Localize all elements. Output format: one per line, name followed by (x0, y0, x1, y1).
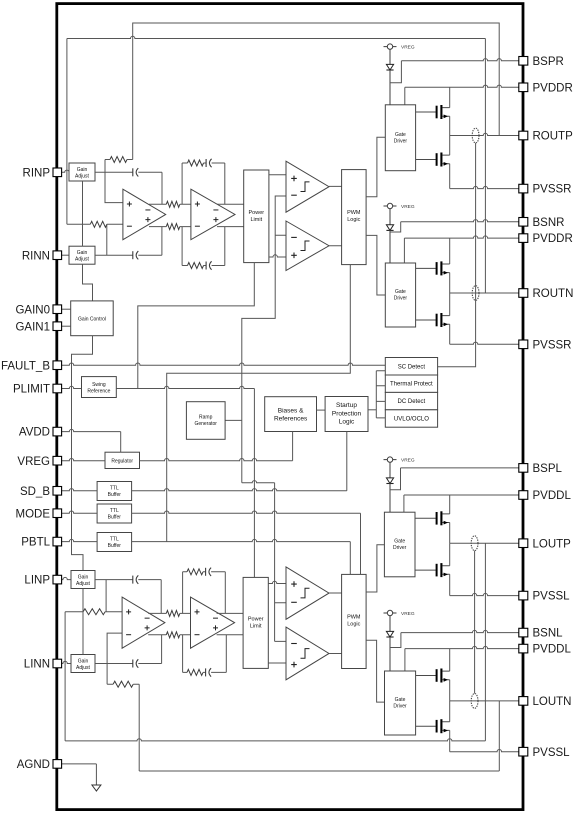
block Ramp Generator (186, 402, 225, 440)
block PWM Logic right channel (342, 170, 367, 265)
block Regulator (105, 452, 140, 468)
protection bus (376, 371, 385, 418)
wire PWM2 to gate driver 4 (366, 640, 384, 702)
op-amp U3 first stage left channel (122, 597, 165, 648)
wire PWM2 to gate driver 3 (366, 545, 384, 592)
pin PVDDR (519, 83, 528, 92)
svg-text:Buffer: Buffer (108, 515, 122, 521)
wire - input opamp3 (107, 633, 122, 663)
svg-text:LINN: LINN (24, 659, 50, 671)
wire PVDDL rail 1 (403, 495, 405, 512)
wire PL2 to comparator3 + input (268, 581, 286, 583)
pin PVSSL (519, 747, 528, 756)
svg-text:PVSSR: PVSSR (533, 184, 572, 196)
wire LINP pin (62, 577, 71, 579)
svg-text:LINP: LINP (24, 575, 50, 587)
svg-text:Driver: Driver (394, 139, 408, 145)
wire startup logic to protection bus (368, 409, 376, 411)
pin BSPL (519, 464, 528, 473)
svg-text:SD_B: SD_B (20, 486, 50, 498)
svg-text:PVSSR: PVSSR (533, 339, 572, 351)
svg-text:VREG: VREG (17, 456, 50, 468)
block Thermal Protect (385, 375, 437, 392)
svg-text:PVDDL: PVDDL (533, 490, 572, 502)
VREG terminal 1 (384, 46, 397, 48)
block Biases & References (265, 397, 317, 432)
svg-text:TTL: TTL (110, 537, 119, 543)
wire power limit to PLIMIT net (138, 263, 255, 389)
diode D3 (389, 462, 391, 478)
svg-text:Logic: Logic (347, 217, 360, 223)
svg-text:PVSSL: PVSSL (533, 591, 571, 603)
wire PVDDL rail 2 (404, 649, 406, 671)
wire LOUTN feedback run F2 (139, 770, 499, 772)
current sense ellipse 4 (471, 694, 478, 709)
svg-text:PBTL: PBTL (21, 537, 50, 549)
wire ROUTN node (450, 292, 519, 294)
op-amp U1 first stage right channel (123, 189, 166, 240)
wire AVDD (62, 429, 121, 431)
block UVLO/OCLO (385, 410, 437, 427)
svg-text:PVDDR: PVDDR (533, 82, 573, 94)
wire PVSSR 1 (450, 186, 519, 188)
wire op1 lower output + interstage resistor (149, 226, 191, 228)
pin PVDDR (519, 234, 528, 243)
wire PVSSL 2 (450, 750, 519, 752)
svg-text:VREG: VREG (401, 611, 415, 617)
wire op4 outputs to power limit 2 (217, 613, 244, 634)
transistor Q8 low-side left N (416, 725, 436, 727)
diode D1 (389, 49, 391, 64)
svg-text:PWM: PWM (347, 614, 361, 620)
svg-text:Power: Power (249, 210, 265, 216)
wire PBTL (62, 539, 98, 541)
wire ROUTN feedback run (67, 36, 486, 38)
svg-text:Gate: Gate (395, 132, 406, 138)
svg-text:AVDD: AVDD (19, 427, 50, 439)
svg-text:Gain: Gain (77, 250, 88, 256)
svg-text:VREG: VREG (401, 457, 415, 463)
resistor feedback RINN (90, 221, 107, 227)
svg-text:Regulator: Regulator (111, 458, 133, 464)
wire biases to startup logic (317, 409, 326, 411)
wire startup logic to SD_B (346, 432, 348, 491)
block SC Detect (385, 358, 437, 376)
transistor Q6 low-side left P (415, 569, 436, 571)
pin FAULT_B (53, 361, 62, 370)
wire comparator outputs to PWM logic 2 (329, 593, 342, 654)
wire PVDDR rail 2 (403, 238, 405, 263)
wire PVSSR 2 (450, 342, 519, 344)
svg-text:Thermal Protect: Thermal Protect (390, 382, 433, 388)
op-amp U2 second stage right channel (191, 189, 235, 240)
svg-text:Logic: Logic (339, 419, 355, 426)
svg-text:RINN: RINN (22, 250, 50, 262)
block Gain Adjust RINN (69, 246, 95, 264)
VREG terminal 2 (384, 205, 397, 207)
block Startup Protection Logic (325, 397, 368, 432)
transistor Q7 high-side left N (416, 675, 436, 677)
svg-text:Gate: Gate (394, 539, 405, 545)
svg-text:Gain: Gain (78, 574, 89, 580)
wire PL1 to comparator2 + input (269, 255, 286, 257)
pin LOUTP (519, 539, 528, 548)
svg-text:ROUTN: ROUTN (533, 288, 574, 300)
wire sense line left channel (474, 551, 476, 694)
wire GA3 output row with capacitor (95, 580, 161, 614)
wire bootstrap BSNL (390, 633, 401, 648)
pin PBTL (53, 537, 62, 546)
wire VREG row (140, 459, 293, 461)
wire GA4 output row with capacitor (95, 635, 162, 664)
svg-text:UVLO/OCLO: UVLO/OCLO (394, 417, 429, 423)
svg-text:BSNL: BSNL (533, 628, 564, 640)
wire ramp jog to lower comparators (242, 481, 275, 483)
VREG terminal 4 (384, 612, 397, 614)
wire stage2 feedback taps bottom (182, 572, 184, 673)
svg-text:Adjust: Adjust (76, 581, 91, 587)
wire RINN node vertical (106, 224, 108, 255)
wire op3 upper output + interstage resistor (148, 612, 190, 614)
block Gate Driver 4 (385, 671, 416, 735)
svg-text:Buffer: Buffer (108, 543, 122, 549)
svg-text:Reference: Reference (87, 389, 110, 395)
wire comparator3/4 - inputs (275, 603, 286, 642)
svg-text:Driver: Driver (394, 296, 408, 302)
pin PVDDL (519, 491, 528, 500)
wire op2 outputs to power limit (217, 204, 244, 226)
svg-text:Biases &: Biases & (278, 407, 304, 414)
svg-text:Ramp: Ramp (199, 414, 213, 420)
pin SD_B (53, 487, 62, 496)
svg-text:Adjust: Adjust (76, 665, 91, 671)
block PWM Logic left channel (342, 574, 367, 668)
svg-text:GAIN0: GAIN0 (15, 304, 50, 316)
resistor feedback RINP (110, 157, 127, 163)
svg-text:Buffer: Buffer (108, 492, 122, 498)
pin BSPR (519, 57, 528, 66)
svg-text:Driver: Driver (393, 545, 407, 551)
comparator 3 left channel (286, 567, 329, 619)
svg-text:References: References (274, 416, 308, 423)
wire gain control to lower gain adjust (72, 336, 93, 571)
svg-text:Driver: Driver (393, 704, 407, 710)
wire LOUTN node (450, 700, 519, 702)
current sense ellipse 3 (471, 536, 478, 551)
svg-text:Limit: Limit (250, 217, 262, 223)
svg-text:LOUTN: LOUTN (533, 696, 572, 708)
block Gate Driver 1 (385, 105, 415, 171)
current sense ellipse 1 (472, 128, 479, 143)
svg-text:PWM: PWM (347, 210, 361, 216)
wire VREG pin (62, 459, 105, 461)
wire biases to VREG row (292, 432, 294, 461)
svg-text:Gain: Gain (78, 658, 89, 664)
pin PLIMIT (53, 384, 62, 393)
comparator 2 right channel (286, 221, 329, 271)
svg-text:Adjust: Adjust (75, 173, 90, 179)
block Gate Driver 3 (384, 512, 415, 577)
svg-text:BSPL: BSPL (533, 463, 563, 475)
svg-text:Logic: Logic (347, 621, 360, 627)
wire ROUTP feedback top run (133, 23, 500, 160)
comparator 4 left channel (286, 627, 329, 680)
pin BSNR (519, 218, 528, 227)
resistor feedback LINP (83, 609, 105, 615)
wire comparator - inputs tie to ramp (242, 196, 286, 483)
svg-text:RINP: RINP (23, 167, 51, 179)
svg-text:Limit: Limit (250, 623, 262, 629)
wire PL2 to comparator4 + input (268, 662, 286, 664)
block Power Limit right channel (244, 170, 269, 263)
svg-text:SC Detect: SC Detect (398, 364, 426, 370)
wire PLIMIT net row (116, 386, 254, 388)
svg-text:LOUTP: LOUTP (533, 538, 572, 550)
pin LINP (53, 575, 62, 584)
diode D2 (389, 209, 391, 225)
block Gate Driver 2 (385, 263, 415, 327)
feedback R+C stage2 upper (182, 163, 225, 204)
block Gain Adjust LINP (71, 571, 95, 589)
pin ROUTN (519, 289, 528, 298)
svg-text:Adjust: Adjust (75, 257, 90, 263)
wire stage2 feedback taps (181, 163, 183, 266)
wire GAIN1 (62, 325, 71, 327)
svg-text:TTL: TTL (110, 486, 119, 492)
svg-text:GAIN1: GAIN1 (15, 321, 50, 333)
resistor feedback LINN (113, 681, 133, 687)
transistor Q3 high-side right N (416, 267, 436, 269)
wire MODE (62, 511, 98, 513)
op-amp U4 second stage left channel (191, 597, 235, 648)
svg-text:MODE: MODE (16, 508, 51, 520)
wire RINN pin (62, 254, 69, 256)
pin RINN (53, 251, 62, 260)
block Power Limit left channel (243, 577, 268, 668)
wire ROUTP node (450, 133, 519, 135)
wire PVDDR rail 1 (404, 87, 406, 105)
svg-text:Startup: Startup (336, 402, 357, 409)
wire bootstrap BSPR (390, 61, 401, 83)
wire + input opamp1 (105, 172, 123, 202)
pin PVSSL (519, 591, 528, 600)
wire PWM1 to gate driver 2 (366, 235, 385, 295)
wire comparator outputs to PWM logic (329, 186, 342, 245)
wire PVSSL 1 (450, 593, 519, 595)
wire LOUTP node (450, 542, 519, 544)
block TTL Buffer SD_B (97, 482, 132, 501)
diode D4 (389, 616, 391, 632)
transistor Q1 high-side right P (416, 111, 436, 113)
block Gain Adjust RINP (69, 163, 95, 181)
svg-text:BSPR: BSPR (533, 56, 564, 68)
pin GAIN1 (53, 322, 62, 331)
svg-text:PLIMIT: PLIMIT (13, 384, 50, 396)
svg-text:AGND: AGND (17, 759, 50, 771)
ground symbol (92, 785, 101, 791)
svg-text:FAULT_B: FAULT_B (1, 360, 50, 372)
wire GA1 output row with capacitor (95, 172, 162, 204)
feedback R+C stage2 upper bottom (183, 572, 226, 614)
transistor Q4 low-side right N (416, 319, 436, 321)
svg-text:Gate: Gate (395, 697, 406, 703)
svg-text:DC Detect: DC Detect (398, 399, 426, 405)
svg-text:ROUTP: ROUTP (533, 131, 574, 143)
pin LINN (53, 659, 62, 668)
block Gain Control (71, 301, 114, 336)
wire PL1 to comparator1 + input (269, 174, 286, 176)
pin PVSSR (519, 184, 528, 193)
svg-text:Gate: Gate (395, 289, 406, 295)
pin PVDDL (519, 644, 528, 653)
pin AGND (53, 760, 62, 769)
pin GAIN0 (53, 305, 62, 314)
svg-text:PVDDL: PVDDL (533, 644, 572, 656)
svg-text:VREG: VREG (401, 44, 415, 50)
svg-text:Generator: Generator (194, 421, 217, 427)
wire op1 upper output + interstage resistor (149, 203, 191, 205)
wire SC sense line right channel (438, 143, 476, 367)
pin LOUTN (519, 697, 528, 706)
feedback R+C stage2 lower (182, 227, 225, 266)
block Swing Reference (82, 377, 117, 398)
block TTL Buffer MODE (97, 504, 132, 523)
wire GA2 to gain control (83, 264, 93, 301)
pin VREG (53, 456, 62, 465)
wire LINN pin (62, 661, 71, 663)
wire GA2 output row with capacitor (95, 227, 162, 256)
svg-text:VREG: VREG (401, 204, 415, 210)
pin PVSSR (519, 340, 528, 349)
block DC Detect (385, 392, 437, 409)
svg-text:Swing: Swing (92, 382, 106, 388)
block Gain Adjust LINN (71, 655, 95, 673)
svg-text:TTL: TTL (110, 508, 119, 514)
svg-text:PVSSL: PVSSL (533, 747, 571, 759)
wire GA3-GA4 tie (82, 589, 84, 655)
transistor Q2 low-side right P (416, 159, 436, 161)
wire FAULT_B net (62, 363, 386, 365)
wire PBTL net from PWM1 (167, 265, 351, 542)
svg-text:BSNR: BSNR (533, 217, 565, 229)
wire RINP pin (62, 170, 70, 172)
svg-text:Gain Control: Gain Control (78, 316, 106, 322)
wire SD_B (62, 489, 98, 491)
wire bootstrap BSNR (390, 222, 401, 232)
wire bootstrap BSPL (390, 468, 401, 490)
transistor Q5 high-side left P (415, 517, 436, 519)
svg-text:PVDDR: PVDDR (533, 233, 573, 245)
wire AGND (62, 763, 97, 765)
pin ROUTP (519, 131, 528, 140)
svg-text:Protection: Protection (332, 410, 362, 417)
wire ramp generator output (225, 419, 242, 421)
svg-text:Gain: Gain (77, 167, 88, 173)
wire op3 lower output + interstage resistor (148, 634, 190, 636)
pin AVDD (53, 427, 62, 436)
wire GA1-GA2 tie (82, 181, 84, 246)
wire GAIN0 (62, 308, 71, 310)
wire PWM1 to gate driver 1 (366, 137, 385, 197)
pin BSNL (519, 628, 528, 637)
block TTL Buffer PBTL (97, 533, 132, 552)
pin MODE (53, 509, 62, 518)
svg-text:Power: Power (248, 616, 264, 622)
current sense ellipse 2 (472, 286, 479, 301)
wire LOUTP feedback run F1 (65, 739, 485, 741)
VREG terminal 3 (384, 459, 397, 461)
pin RINP (53, 168, 62, 177)
comparator 1 right channel (286, 161, 329, 212)
wire PLIMIT pin (62, 386, 82, 388)
feedback R+C stage2 lower bottom (183, 635, 227, 673)
